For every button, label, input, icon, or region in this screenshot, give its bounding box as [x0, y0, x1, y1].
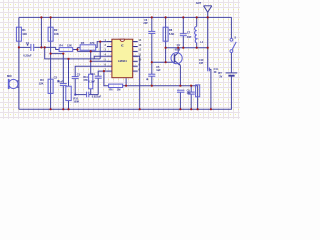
junction	[67, 108, 69, 110]
wire C8 to base node	[151, 33, 153, 62]
wire C1 signal y47	[19, 46, 31, 48]
pin 6	[107, 65, 112, 67]
wire L1 bottom lead	[196, 43, 198, 48]
resistor R9 emitter	[196, 85, 200, 97]
inductor L1 coil	[195, 26, 197, 42]
wire R5 left lead	[77, 47, 80, 49]
junction	[125, 85, 127, 87]
svg-text:0.1uF: 0.1uF	[88, 80, 95, 83]
wire switch to battery	[230, 53, 232, 73]
pin 1	[107, 41, 112, 43]
svg-text:0.022uF: 0.022uF	[92, 95, 102, 98]
wire emitter lead down	[175, 61, 181, 65]
resistor R5 47K horizontal	[80, 45, 96, 50]
junction	[182, 16, 184, 18]
junction	[165, 61, 167, 63]
wire emitter cap to bus	[179, 92, 181, 109]
pin 3	[107, 50, 112, 52]
pin 14	[133, 41, 138, 43]
junction	[179, 108, 181, 110]
pin 10	[133, 60, 138, 62]
junction	[197, 108, 199, 110]
resistor R11 47K vertical	[89, 74, 93, 89]
wire coupling cap right lead	[89, 94, 98, 96]
svg-text:40P: 40P	[187, 36, 192, 39]
junction	[40, 46, 42, 48]
wire C5 bottom	[151, 76, 153, 85]
svg-text:R8: R8	[169, 28, 173, 32]
wire R6 right to node	[123, 85, 127, 87]
svg-text:BT: BT	[218, 72, 222, 75]
capacitor C13 emitter bypass	[177, 90, 184, 92]
svg-text:10P: 10P	[199, 62, 204, 65]
pin 4	[107, 55, 112, 57]
junction	[207, 47, 209, 49]
junction	[90, 50, 92, 52]
wire base net y62.2	[152, 61, 175, 63]
wire R2-R3 vertical	[50, 17, 52, 109]
wire pin7 down to R6	[104, 71, 109, 86]
svg-text:10uF: 10uF	[57, 80, 63, 83]
wire collector net y47.7	[166, 47, 208, 49]
svg-text:C2: C2	[54, 75, 58, 79]
svg-text:10K: 10K	[22, 32, 27, 36]
capacitor C7 40P	[180, 34, 187, 36]
pin 13	[133, 46, 138, 48]
junction	[151, 61, 153, 63]
wire bias drop x41	[40, 17, 42, 47]
junction	[210, 108, 212, 110]
wire C8 top chain	[151, 17, 153, 31]
wire pin7 stub extension	[104, 70, 107, 72]
junction	[90, 60, 92, 62]
wire pin11 ground drop	[133, 56, 140, 109]
wire pin1 node drop	[99, 42, 101, 59]
svg-text:LM324: LM324	[118, 59, 127, 63]
capacitor C6 22P top	[148, 31, 155, 33]
wire C4 chain	[98, 71, 104, 76]
capacitor C10 coupling to antenna line	[207, 68, 209, 72]
junction	[179, 85, 181, 87]
svg-text:47K: 47K	[83, 79, 88, 82]
svg-text:R1: R1	[22, 28, 26, 32]
wire R2 node y53.6 to C2	[51, 54, 64, 84]
wire output net y85.7	[126, 85, 198, 87]
junction	[103, 70, 105, 72]
wire pin6 lead to C3	[75, 66, 107, 76]
svg-text:ANT: ANT	[196, 1, 202, 5]
resistor R2 10K	[48, 27, 53, 41]
junction	[196, 47, 198, 49]
junction	[190, 108, 192, 110]
capacitor C3	[72, 77, 79, 79]
capacitor C1 0.22uF electrolytic	[30, 44, 32, 51]
junction	[165, 47, 167, 49]
wire battery to bus corner	[19, 76, 232, 109]
resistor R1 10K	[16, 27, 21, 41]
wire pin5 lead	[91, 60, 107, 62]
junction	[151, 85, 153, 87]
junction	[76, 48, 78, 50]
junction	[177, 47, 179, 49]
wire C10 right lead down to bus	[209, 69, 211, 109]
op-amp U1 LM324 DIP14 body	[112, 39, 133, 77]
resistor R3 12K	[48, 79, 53, 93]
capacitor C5 10uF electrolytic	[148, 74, 155, 76]
wire emitter chain	[179, 65, 181, 85]
svg-text:22P: 22P	[143, 22, 148, 25]
svg-text:0.22uF: 0.22uF	[23, 54, 32, 58]
wire node up stub under IC	[125, 78, 127, 86]
switch S1	[230, 38, 236, 52]
capacitor C2 10uF electrolytic	[60, 84, 67, 86]
junction	[196, 16, 198, 18]
microphone MIC1	[9, 79, 19, 89]
wire collector lead	[175, 48, 178, 56]
junction	[165, 16, 167, 18]
junction	[50, 53, 52, 55]
svg-text:9018: 9018	[175, 48, 181, 51]
wire C9 bottom to bus	[190, 94, 192, 109]
junction	[18, 46, 20, 48]
svg-text:4X: 4X	[214, 71, 217, 74]
pin 9	[133, 65, 138, 67]
junction	[50, 108, 52, 110]
svg-text:47K: 47K	[90, 41, 95, 45]
pin 11	[133, 55, 138, 57]
svg-text:C1: C1	[26, 41, 30, 45]
pin 2	[107, 46, 112, 48]
wire R1-mic vertical left rail	[18, 17, 20, 109]
junction	[151, 16, 153, 18]
capacitor C9 10E	[188, 92, 195, 94]
svg-text:R3: R3	[40, 78, 44, 82]
junction	[67, 58, 69, 60]
svg-text:1uF: 1uF	[156, 69, 161, 72]
capacitor C12 0.022uF horizontal coupling	[86, 92, 88, 98]
wire R11 vertical pin3 bias	[90, 51, 92, 74]
wire C1 corner down to y59	[45, 47, 100, 59]
wire R10 chain to bus	[68, 59, 70, 86]
junction	[190, 85, 192, 87]
wire C7 chain	[182, 17, 184, 33]
junction	[62, 53, 64, 55]
svg-text:100K: 100K	[73, 101, 79, 104]
svg-text:R6: R6	[109, 88, 113, 92]
svg-text:3V: 3V	[219, 76, 222, 79]
svg-text:5.6K: 5.6K	[169, 32, 175, 36]
resistor R10 100K bottom	[66, 86, 71, 100]
wire R8 vertical	[165, 17, 167, 62]
junction blue square	[74, 94, 76, 96]
junction	[207, 16, 209, 18]
wire R4 right to node	[73, 50, 78, 52]
svg-text:1M: 1M	[117, 88, 121, 92]
wire R9 chain	[197, 86, 199, 110]
svg-text:R2: R2	[54, 28, 58, 32]
resistor R4 12K horizontal	[59, 48, 73, 52]
svg-text:10K: 10K	[54, 32, 59, 36]
pin 12	[133, 50, 138, 52]
transistor Q1 9018 NPN	[171, 53, 182, 66]
svg-text:MIC: MIC	[7, 74, 12, 78]
junction	[99, 41, 101, 43]
svg-text:12K: 12K	[39, 82, 44, 86]
svg-text:R4: R4	[59, 43, 63, 47]
resistor R8 5.6K	[163, 27, 168, 41]
junction	[44, 46, 46, 48]
junction	[50, 16, 52, 18]
resistor R6 1M feedback horizontal	[109, 84, 123, 87]
wire pin1 to R5	[96, 42, 107, 48]
wire C5 hang	[151, 62, 153, 74]
wire antenna drop	[207, 12, 209, 69]
wire coupling cap left lead y94.6	[75, 94, 86, 96]
pin 5	[107, 60, 112, 62]
battery BT1 3V	[226, 72, 238, 74]
wire top bus right drop to switch	[230, 17, 232, 38]
junction	[182, 47, 184, 49]
junction	[62, 108, 64, 110]
capacitor C4 0.1uF	[95, 76, 102, 78]
wire VCC top bus	[19, 16, 232, 18]
svg-text:IC: IC	[121, 44, 124, 48]
wire pin4 lead	[94, 56, 107, 59]
wire C9 hang	[190, 86, 192, 93]
wire R4 left lead	[56, 47, 59, 49]
svg-text:R5: R5	[81, 41, 85, 45]
wire L1 top lead	[196, 17, 198, 26]
pin 8	[133, 70, 138, 72]
wire pin3 net y51.4	[77, 50, 107, 52]
svg-text:12K: 12K	[67, 43, 72, 47]
junction	[40, 16, 42, 18]
wire C3 bottom	[74, 79, 76, 95]
antenna ANT	[204, 6, 212, 12]
svg-text:10E: 10E	[187, 92, 192, 95]
junction	[139, 108, 141, 110]
wire C2 bottom to ground bus	[62, 86, 64, 110]
pin 7	[107, 70, 112, 72]
